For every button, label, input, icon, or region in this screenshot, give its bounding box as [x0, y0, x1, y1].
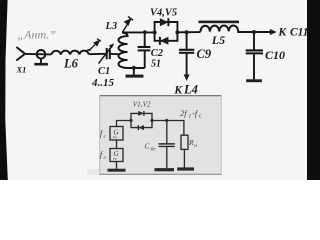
connector circle [37, 50, 46, 59]
ground generators [116, 162, 118, 169]
svg-text:К: К [277, 27, 287, 39]
trimmer arrow above wire [87, 39, 101, 51]
svg-text:L5: L5 [211, 33, 225, 47]
svg-text:V4,V5: V4,V5 [150, 7, 177, 18]
svg-text:L4: L4 [183, 82, 198, 96]
svg-text:бл: бл [151, 146, 157, 153]
svg-text:V1,V2: V1,V2 [133, 100, 151, 108]
resistor R_н [181, 135, 188, 149]
svg-text:К: К [173, 84, 183, 96]
tank inductor L3 (vertical, bumps left) [119, 33, 128, 69]
inductor L6 [52, 51, 89, 55]
diode V5 (bottom, left-pointing) [160, 37, 169, 45]
L3 adjust arrow [123, 17, 133, 33]
ground C_бл [155, 168, 175, 171]
paper smudge [87, 169, 100, 175]
capacitor C9 [186, 32, 188, 49]
svg-text:R: R [188, 138, 194, 147]
svg-text:4..15: 4..15 [91, 77, 115, 89]
output arrow to C11 [270, 29, 277, 35]
inset diode pair loop [131, 113, 152, 127]
svg-text:С10: С10 [265, 48, 285, 62]
svg-text:L6: L6 [63, 57, 79, 71]
capacitor C2 [144, 32, 146, 46]
generator G1 (f_c) [110, 127, 123, 141]
wire L6 to C1 [89, 53, 106, 55]
inductor L5 with core [200, 25, 238, 31]
node C_bl [165, 119, 168, 122]
diode V4 (top, right-pointing) [160, 18, 169, 26]
inset node left [129, 119, 132, 122]
node diode right [175, 30, 179, 34]
capacitor C1 (variable) plates [106, 48, 108, 59]
tank bottom wire [128, 67, 145, 69]
arrow to L4 [184, 74, 190, 81]
inset node right [150, 119, 153, 122]
wire fork through circle to L6 [25, 53, 52, 56]
paper background [0, 0, 320, 180]
L5 core bar [198, 21, 239, 24]
node tank bottom [132, 66, 136, 70]
main top rail [122, 31, 155, 33]
svg-text:С11: С11 [290, 27, 309, 39]
ground under circle [40, 59, 42, 64]
svg-text:С2: С2 [151, 48, 164, 59]
capacitor C_бл [166, 121, 168, 144]
svg-text:С9: С9 [197, 47, 212, 61]
ground tank [133, 68, 135, 75]
left black bar [0, 0, 8, 180]
right black bar [307, 0, 320, 180]
node C9 [185, 30, 189, 34]
capacitor C10 [253, 32, 255, 50]
inset diode V1 (top, right-pointing) [138, 111, 144, 116]
inset diode V2 (bottom, left-pointing) [138, 125, 144, 130]
wire C1 to tank coil tap [110, 53, 119, 55]
connector X1 fork [17, 48, 25, 61]
diode pair V4,V5 loop [155, 22, 178, 41]
svg-text:с: с [199, 114, 202, 120]
node C10 [252, 30, 256, 34]
generator G2 (f_г) [110, 149, 123, 162]
ground R_н [177, 167, 194, 170]
generator feed wire [117, 121, 132, 127]
svg-text:н: н [194, 143, 197, 149]
svg-text:С1: С1 [98, 66, 110, 77]
C1 variable arrow [99, 47, 112, 64]
ground C10 [246, 79, 262, 82]
inset output rail [152, 121, 184, 136]
node diode left [153, 30, 157, 34]
svg-text:51: 51 [151, 58, 161, 69]
inset box [100, 96, 222, 175]
node C2 top [143, 30, 147, 34]
svg-text:L3: L3 [105, 21, 118, 32]
svg-text:„Ант.”: „Ант.” [18, 28, 57, 42]
svg-text:X1: X1 [16, 65, 27, 75]
wire G1 to G2 [116, 140, 118, 149]
